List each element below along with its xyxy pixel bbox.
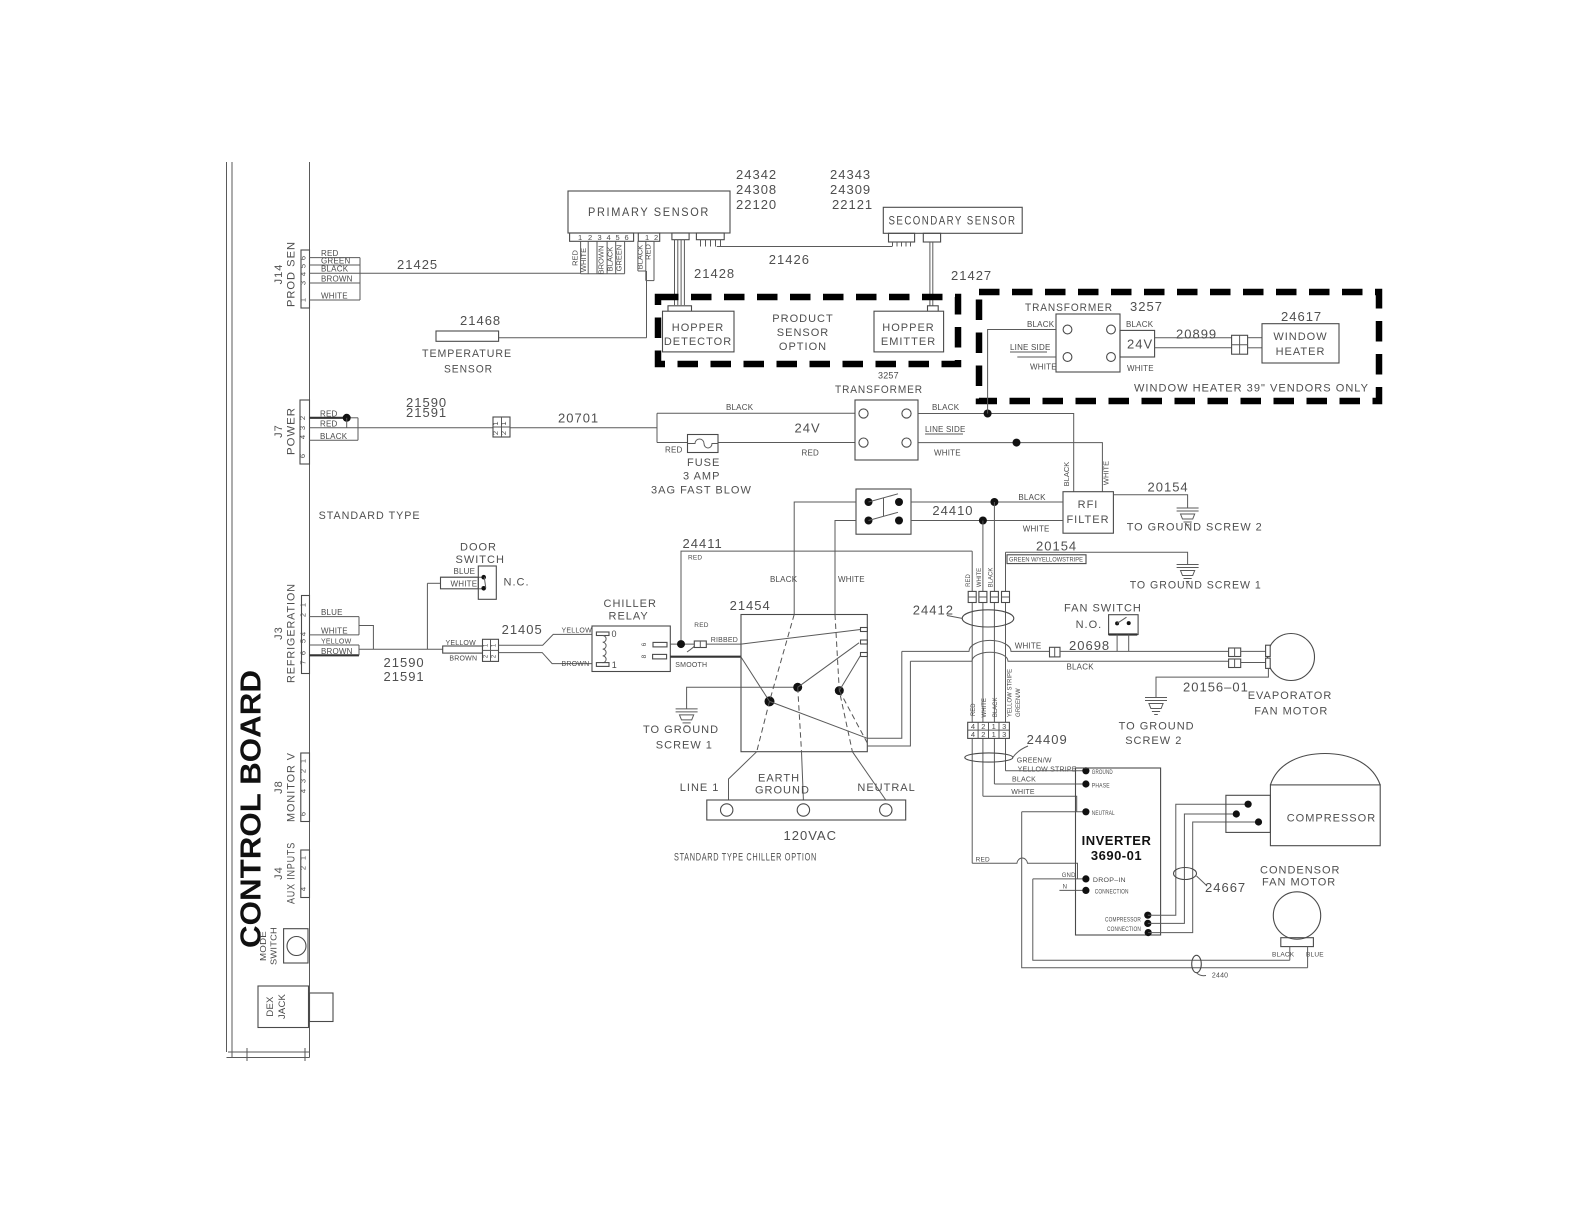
svg-text:BLACK: BLACK [1067, 663, 1095, 672]
svg-text:WHITE: WHITE [977, 568, 983, 587]
condensor fan motor [1260, 865, 1341, 968]
svg-text:GND: GND [1062, 873, 1076, 879]
svg-text:FAN MOTOR: FAN MOTOR [1254, 706, 1328, 718]
svg-text:20154: 20154 [1036, 539, 1077, 554]
svg-text:DEX: DEX [265, 996, 276, 1017]
svg-text:TO GROUND: TO GROUND [643, 724, 719, 736]
wire white neutral [983, 796, 1077, 812]
svg-text:1: 1 [992, 730, 996, 739]
svg-text:FAN SWITCH: FAN SWITCH [1064, 603, 1142, 615]
dex jack [258, 986, 333, 1028]
rocker switch 24410 [856, 489, 911, 534]
svg-text:4: 4 [299, 887, 308, 891]
wire window white stub [1017, 356, 1056, 358]
svg-text:RIBBED: RIBBED [711, 637, 738, 644]
cable marker 2440 [1192, 955, 1202, 972]
wire green/yellow to ground screw 1 [1006, 552, 1188, 564]
svg-text:3: 3 [299, 779, 308, 783]
svg-text:EARTH: EARTH [758, 773, 800, 785]
svg-text:22120: 22120 [736, 197, 777, 212]
part numbers 24343 24309 22121 [830, 167, 873, 212]
wire 21426 primary to secondary sensor [717, 246, 892, 248]
svg-text:20899: 20899 [1176, 327, 1217, 342]
svg-text:SWITCH: SWITCH [456, 554, 505, 566]
svg-text:STANDARD TYPE: STANDARD TYPE [319, 510, 421, 522]
svg-text:20698: 20698 [1069, 638, 1110, 653]
svg-text:RED: RED [688, 555, 702, 562]
inline connectors on bundle [968, 591, 1009, 602]
svg-text:WHITE: WHITE [934, 448, 961, 457]
leg neutral [852, 752, 885, 800]
svg-text:2: 2 [499, 431, 508, 435]
svg-text:3: 3 [598, 233, 602, 242]
harness dashed black path [757, 615, 795, 752]
svg-text:WHITE: WHITE [321, 292, 348, 301]
svg-text:2: 2 [299, 866, 308, 870]
svg-text:1: 1 [299, 298, 308, 302]
svg-text:5: 5 [299, 639, 308, 643]
transformer 3257 (main) [835, 371, 923, 461]
wire window black (line side drop) [988, 330, 1056, 414]
fuse 3 amp [651, 435, 752, 497]
svg-text:SCREW 1: SCREW 1 [656, 740, 713, 752]
svg-text:INVERTER: INVERTER [1082, 833, 1152, 848]
svg-text:2: 2 [588, 233, 592, 242]
svg-text:4: 4 [298, 435, 307, 439]
temperature sensor box 21468 [422, 313, 512, 376]
wire switch black to harness box [794, 502, 856, 615]
white wire after connector to evap fan [1060, 650, 1229, 652]
control board outline (left double rail) [227, 162, 310, 1061]
svg-text:2: 2 [981, 730, 985, 739]
fan switch [1064, 603, 1142, 652]
svg-text:RED: RED [320, 419, 338, 428]
evaporator fan motor [1266, 634, 1315, 681]
wire green/yellow vertical [1005, 552, 1007, 771]
svg-text:8: 8 [641, 654, 648, 658]
svg-text:COMPRESSOR: COMPRESSOR [1287, 813, 1376, 825]
svg-text:BROWN: BROWN [321, 275, 353, 284]
svg-text:4: 4 [299, 272, 308, 276]
wire step blue/white pair joining bundle [359, 626, 373, 650]
product sensor option dashed border [658, 297, 958, 364]
cable tag 21405 [443, 640, 483, 663]
svg-text:OPTION: OPTION [779, 341, 827, 353]
primary sensor strip2 tag columns BLACK RED [636, 241, 655, 280]
cable marker 24667 [1174, 868, 1197, 880]
harness smooth diag [741, 657, 770, 701]
gnd drop to condenser black [1033, 879, 1290, 960]
svg-text:24V: 24V [1127, 337, 1153, 352]
svg-text:3 AMP: 3 AMP [683, 471, 720, 483]
svg-text:BROWN: BROWN [562, 661, 590, 668]
junction dot black drop [990, 498, 998, 506]
svg-text:1: 1 [612, 660, 617, 670]
junction dot window-heater black tap [984, 410, 992, 418]
svg-text:21428: 21428 [694, 266, 735, 281]
svg-text:TO GROUND: TO GROUND [1119, 721, 1195, 733]
J7 wire tag box RED RED BLACK [310, 409, 359, 441]
wire black phase [994, 783, 1086, 785]
svg-text:NEUTRAL: NEUTRAL [1092, 811, 1115, 817]
harness center node [793, 683, 802, 692]
J3 tag box BLUE WHITE [310, 608, 360, 635]
N stub to connection [1059, 889, 1086, 891]
svg-text:21425: 21425 [397, 257, 438, 272]
svg-text:GREEN/W: GREEN/W [1016, 688, 1022, 717]
svg-text:20156–01: 20156–01 [1183, 680, 1249, 695]
evap fan inline connectors [1229, 648, 1241, 668]
svg-text:2: 2 [299, 769, 308, 773]
svg-text:FAN MOTOR: FAN MOTOR [1262, 877, 1336, 889]
primary sensor pin strip 1-6 [570, 233, 634, 242]
leg line1 [729, 752, 757, 800]
svg-text:POWER: POWER [286, 407, 298, 455]
svg-text:J8: J8 [273, 780, 285, 794]
wire 24411 red (chiller to bundle) [681, 551, 972, 644]
svg-text:4: 4 [299, 789, 308, 793]
svg-text:WHITE: WHITE [1127, 364, 1154, 373]
hopper detector connector tab [668, 306, 692, 314]
svg-text:RED: RED [665, 445, 683, 454]
junction dot J7 red [343, 414, 351, 422]
wire 21590/21591 power [358, 427, 493, 429]
wire switch to RFI white [911, 520, 1063, 522]
svg-text:PROD SEN: PROD SEN [286, 241, 298, 307]
svg-text:BLUE: BLUE [454, 567, 476, 576]
svg-text:1: 1 [299, 759, 308, 763]
svg-text:RED: RED [802, 448, 820, 457]
svg-text:BLACK: BLACK [1272, 952, 1295, 959]
svg-text:J7: J7 [273, 424, 285, 438]
svg-text:7: 7 [299, 660, 308, 664]
svg-text:120VAC: 120VAC [784, 828, 837, 843]
svg-text:WHITE: WHITE [838, 575, 865, 584]
svg-text:21591: 21591 [384, 669, 425, 684]
svg-text:21426: 21426 [769, 252, 810, 267]
ground symbol (screw 1) [1177, 565, 1199, 582]
svg-text:TRANSFORMER: TRANSFORMER [1025, 302, 1113, 314]
harness solid line ribbed to top notch [741, 630, 861, 645]
svg-text:6: 6 [299, 812, 308, 816]
svg-text:TO GROUND SCREW 1: TO GROUND SCREW 1 [1130, 580, 1262, 592]
cable marker ellipse 24409 [965, 753, 1013, 762]
svg-text:HOPPER: HOPPER [882, 322, 934, 334]
svg-text:BROWN: BROWN [449, 656, 477, 663]
svg-text:EMITTER: EMITTER [881, 336, 936, 348]
svg-text:J4: J4 [273, 866, 285, 880]
harness ground wire to screw 1 [687, 687, 798, 709]
svg-text:24343: 24343 [830, 167, 871, 182]
wire relay pin6 to harness (ribbed) [670, 643, 694, 645]
svg-text:6: 6 [299, 651, 308, 655]
svg-text:GROUND: GROUND [1092, 770, 1113, 776]
svg-text:3257: 3257 [1130, 299, 1163, 314]
compressor terminal box [1226, 795, 1271, 832]
svg-text:6: 6 [298, 454, 307, 458]
svg-text:24411: 24411 [683, 536, 723, 551]
window heater box 24617 [1262, 309, 1339, 363]
svg-text:2440: 2440 [1212, 973, 1228, 980]
svg-text:COMPRESSOR: COMPRESSOR [1105, 918, 1141, 924]
svg-text:1: 1 [499, 421, 508, 425]
primary sensor lower tab (ribbon 21428 connector) [672, 233, 689, 240]
wire bundle 21590/21591 to 21405 [359, 648, 443, 650]
svg-text:24309: 24309 [830, 182, 871, 197]
ground symbol (screw 2) [1177, 508, 1199, 525]
ground symbol (screw 2 lower) [1145, 698, 1167, 715]
part numbers 24342 24308 22120 [736, 167, 777, 212]
svg-text:CONNECTION: CONNECTION [1095, 890, 1129, 896]
svg-text:CONNECTION: CONNECTION [1107, 927, 1141, 933]
svg-text:1: 1 [299, 856, 308, 860]
ribbon 21428 (4 wires to hopper detector) [675, 240, 685, 305]
wire ground green/yellow to inverter [1006, 770, 1086, 772]
primary sensor pin strip 1-2 [638, 233, 659, 242]
svg-text:4: 4 [607, 233, 611, 242]
primary sensor wire-name columns RED WHITE BROWN BLACK GREEN [571, 241, 625, 274]
svg-text:BLACK: BLACK [606, 247, 615, 272]
wire inverter to compressor 1 [1148, 804, 1248, 915]
wire from pin1 BLACK down to temperature sensor wire [646, 271, 648, 338]
svg-text:WINDOW HEATER 39" VENDORS ONLY: WINDOW HEATER 39" VENDORS ONLY [1134, 383, 1369, 395]
primary sensor box [568, 191, 730, 233]
svg-text:CONDENSOR: CONDENSOR [1260, 865, 1341, 877]
svg-text:TRANSFORMER: TRANSFORMER [835, 384, 923, 396]
junction dot white net [1013, 439, 1021, 447]
wire switch to RFI black [911, 501, 1063, 503]
svg-text:4: 4 [299, 632, 308, 636]
window heater transformer box [1056, 314, 1120, 372]
RFI filter box [1063, 492, 1113, 534]
svg-text:STANDARD TYPE CHILLER OPTION: STANDARD TYPE CHILLER OPTION [674, 852, 817, 864]
svg-text:J3: J3 [273, 626, 285, 640]
svg-text:SCREW 2: SCREW 2 [1125, 735, 1182, 747]
svg-text:BLACK: BLACK [321, 265, 349, 274]
svg-text:EVAPORATOR: EVAPORATOR [1248, 690, 1333, 702]
wire inverter to compressor 2 [1148, 814, 1237, 923]
svg-text:LINE 1: LINE 1 [680, 782, 720, 794]
svg-text:RED: RED [966, 574, 972, 587]
svg-text:PRIMARY SENSOR: PRIMARY SENSOR [588, 205, 710, 219]
svg-text:21590: 21590 [384, 655, 425, 670]
harness long diag to bottom right [770, 701, 868, 738]
svg-text:CONTROL BOARD: CONTROL BOARD [236, 670, 268, 948]
svg-text:21454: 21454 [730, 598, 771, 613]
svg-text:GROUND: GROUND [755, 785, 810, 797]
cable marker ellipse 24412 [962, 610, 1014, 627]
hopper detector box [663, 311, 735, 352]
svg-text:RED: RED [976, 857, 990, 864]
svg-text:BLACK: BLACK [1126, 320, 1154, 329]
svg-text:1: 1 [645, 233, 649, 242]
svg-text:RELAY: RELAY [609, 611, 649, 623]
svg-text:BLACK: BLACK [320, 432, 348, 441]
svg-text:RED: RED [320, 409, 338, 418]
temperature sensor wire [499, 337, 647, 339]
wire 21425 (J14 to primary sensor) [310, 272, 581, 274]
svg-text:SMOOTH: SMOOTH [675, 662, 707, 669]
svg-text:BLACK: BLACK [770, 575, 798, 584]
svg-text:24342: 24342 [736, 167, 777, 182]
svg-text:LINE SIDE: LINE SIDE [1010, 343, 1050, 352]
svg-text:1: 1 [578, 233, 582, 242]
junction dot white drop [979, 517, 987, 525]
svg-text:PHASE: PHASE [1092, 783, 1110, 789]
mode switch [259, 927, 308, 965]
window heater option dashed border [979, 292, 1379, 401]
wires 20899 to window heater connector [1155, 337, 1232, 339]
svg-text:YELLOW: YELLOW [446, 640, 477, 647]
wire transformer secondary WHITE (to RFI) [918, 443, 1102, 492]
harness left node [765, 696, 775, 706]
wire box to black hump riser [867, 661, 910, 746]
door switch [427, 542, 529, 600]
wire 20701 [510, 427, 657, 429]
svg-text:GREEN: GREEN [615, 245, 624, 272]
svg-text:6: 6 [299, 256, 308, 260]
svg-text:21405: 21405 [502, 622, 543, 637]
svg-text:BLACK: BLACK [932, 403, 960, 412]
svg-text:WHITE: WHITE [1023, 525, 1050, 534]
svg-text:2: 2 [298, 416, 307, 420]
svg-text:PRODUCT: PRODUCT [772, 313, 833, 325]
svg-text:RED: RED [694, 622, 708, 629]
wire inverter to compressor 3 [1148, 822, 1258, 933]
J3 tag box YELLOW BROWN [310, 639, 360, 656]
svg-text:5: 5 [616, 233, 620, 242]
power split to transformer (black top / red bottom) [657, 403, 855, 457]
svg-text:RFI: RFI [1078, 499, 1099, 511]
window line side label [1010, 343, 1050, 352]
svg-text:YELLOW STRIPE: YELLOW STRIPE [1007, 669, 1013, 717]
wires connector to window heater [1248, 337, 1262, 339]
svg-text:24V: 24V [795, 421, 821, 436]
ribbon 21427 (2 wires to hopper emitter) [930, 242, 933, 306]
svg-text:AUX INPUTS: AUX INPUTS [286, 842, 298, 904]
svg-text:LINE SIDE: LINE SIDE [925, 425, 965, 434]
svg-text:BLUE: BLUE [1306, 952, 1324, 959]
leg earth ground [802, 752, 804, 800]
svg-text:22121: 22121 [832, 197, 873, 212]
svg-text:JACK: JACK [277, 993, 288, 1019]
control board connector rail [309, 162, 311, 1058]
svg-text:GREEN/W: GREEN/W [1017, 758, 1052, 765]
ribbon stubs under secondary left tab [893, 242, 911, 247]
svg-text:RED: RED [971, 703, 977, 716]
svg-text:BLUE: BLUE [321, 608, 343, 617]
red leader label [687, 642, 699, 652]
svg-text:24667: 24667 [1205, 880, 1246, 895]
svg-text:WHITE: WHITE [1030, 363, 1057, 372]
svg-text:2: 2 [299, 613, 308, 617]
svg-text:YELLOW: YELLOW [321, 639, 352, 646]
svg-text:WHITE: WHITE [1015, 642, 1042, 651]
120VAC terminal strip [707, 800, 906, 820]
gnd line to drop-in [1033, 878, 1086, 880]
svg-text:SENSOR: SENSOR [444, 364, 493, 376]
svg-text:WHITE: WHITE [1011, 789, 1035, 796]
svg-text:MODE: MODE [259, 931, 268, 961]
wire up to door switch [426, 583, 428, 649]
svg-text:24617: 24617 [1281, 309, 1322, 324]
svg-text:HOPPER: HOPPER [672, 322, 724, 334]
svg-text:CHILLER: CHILLER [604, 598, 657, 610]
svg-text:SECONDARY SENSOR: SECONDARY SENSOR [889, 214, 1017, 228]
svg-text:N: N [1063, 885, 1068, 891]
svg-text:WHITE: WHITE [1102, 461, 1111, 485]
secondary sensor tabs [889, 233, 915, 242]
svg-text:J14: J14 [273, 264, 285, 285]
inline connector ribbed wire [694, 641, 706, 648]
svg-text:WHITE: WHITE [321, 626, 348, 635]
white hump wire (to fan switch) [902, 640, 1050, 651]
wire red with hop to drop-in [972, 858, 1077, 879]
svg-text:WHITE: WHITE [579, 248, 588, 272]
compressor connection terminals [1144, 912, 1151, 919]
wire switch white to harness box [835, 521, 856, 615]
svg-text:3257: 3257 [878, 371, 899, 381]
svg-text:SWITCH: SWITCH [270, 927, 279, 965]
right edge notches [861, 628, 868, 657]
svg-text:20701: 20701 [558, 411, 599, 426]
svg-text:5: 5 [299, 264, 308, 268]
svg-text:RED: RED [644, 244, 653, 260]
wires 21405 to chiller relay (diverging pair) [499, 634, 593, 645]
svg-text:0: 0 [612, 629, 617, 639]
svg-text:WHITE: WHITE [982, 698, 988, 717]
svg-text:4: 4 [971, 730, 975, 739]
inverter box [1076, 768, 1161, 935]
svg-text:WINDOW: WINDOW [1273, 331, 1327, 343]
svg-text:6: 6 [641, 642, 648, 646]
svg-text:BLACK: BLACK [1062, 462, 1071, 487]
svg-text:1: 1 [299, 603, 308, 607]
svg-text:SENSOR: SENSOR [777, 327, 829, 339]
inline connector 20698 [1050, 647, 1061, 657]
wire relay pin8 smooth [670, 656, 741, 658]
secondary sensor box [883, 207, 1022, 233]
product sensor option label [772, 313, 833, 353]
svg-text:BROWN: BROWN [321, 647, 353, 656]
harness dashed earth drop [798, 687, 802, 751]
svg-text:6: 6 [625, 233, 629, 242]
svg-text:DROP–IN: DROP–IN [1093, 878, 1126, 884]
connector J3 REFRIGERATION [273, 583, 310, 683]
primary sensor right tab (to 21426) [696, 233, 724, 240]
wire red vertical [971, 551, 973, 863]
svg-text:24410: 24410 [932, 503, 973, 518]
svg-text:NEUTRAL: NEUTRAL [857, 782, 915, 794]
wire transformer secondary BLACK (to RFI) [918, 414, 1074, 492]
black hump wire (to evap fan) [910, 652, 1228, 661]
svg-text:21427: 21427 [951, 268, 992, 283]
line side label [925, 425, 965, 434]
svg-text:GREEN W/YELLOWSTRIPE: GREEN W/YELLOWSTRIPE [1009, 557, 1084, 564]
inline connector (power) [491, 417, 510, 437]
connector J7 POWER [273, 400, 310, 464]
evap fan ground wire [1156, 668, 1268, 697]
window 24V funnel box [1120, 320, 1155, 373]
svg-text:MONITOR V: MONITOR V [286, 752, 298, 822]
connector strip 4213 [968, 722, 1010, 739]
svg-text:YELLOW: YELLOW [562, 628, 593, 635]
svg-text:TEMPERATURE: TEMPERATURE [422, 348, 512, 360]
svg-text:3: 3 [299, 281, 308, 285]
compressor body [1270, 754, 1380, 846]
inline connector 20899 [1232, 335, 1248, 354]
svg-text:N.O.: N.O. [1076, 619, 1103, 631]
